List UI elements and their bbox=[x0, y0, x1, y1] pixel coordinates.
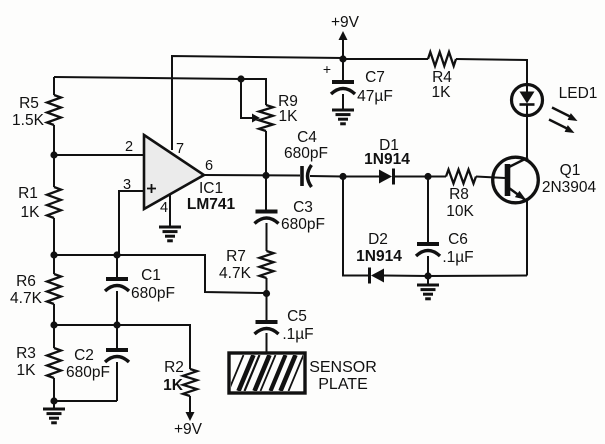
svg-text:C4: C4 bbox=[297, 129, 317, 146]
svg-text:680pF: 680pF bbox=[66, 364, 110, 381]
resistor R7 bbox=[260, 251, 274, 278]
capacitor C3 bbox=[255, 212, 279, 224]
wire pin2 input bbox=[54, 154, 144, 156]
label R1 bbox=[18, 185, 40, 221]
label Q1 bbox=[560, 162, 581, 179]
wire node C to R3 bbox=[53, 325, 55, 348]
C7 plus sign bbox=[323, 61, 331, 77]
svg-text:R5: R5 bbox=[19, 95, 39, 112]
label C1 bbox=[131, 267, 175, 302]
capacitor C1 bbox=[105, 279, 129, 291]
LED1 cathode stem bbox=[526, 105, 528, 116]
wire C1 bottom stem bbox=[116, 291, 118, 325]
label C5 bbox=[282, 308, 313, 343]
LED1 triangle bbox=[520, 92, 535, 104]
node F junction pin3/C1 bbox=[113, 251, 120, 258]
svg-text:1.5K: 1.5K bbox=[12, 112, 45, 129]
wire pin4 ground stem bbox=[169, 194, 171, 227]
label R2 bbox=[163, 359, 184, 394]
wire pin3 input bbox=[119, 191, 144, 255]
ground op-amp pin4 bbox=[159, 227, 181, 241]
svg-text:C5: C5 bbox=[287, 308, 307, 325]
op-amp plus sign pin3 bbox=[147, 184, 156, 193]
wire node K to C5 bbox=[266, 294, 268, 322]
wire node E to R9 top bbox=[241, 79, 266, 105]
label LM741 bbox=[187, 196, 236, 213]
wire output node to C3 bbox=[265, 176, 267, 211]
pin 4 label bbox=[160, 200, 168, 216]
svg-text:4.7K: 4.7K bbox=[10, 290, 43, 307]
wire pin7 supply bbox=[172, 56, 343, 150]
resistor R6 bbox=[47, 274, 61, 304]
label R9 bbox=[278, 93, 298, 125]
capacitor C2 bbox=[105, 350, 129, 362]
LED1 cathode bar bbox=[520, 103, 535, 106]
label R4 bbox=[432, 69, 453, 101]
wire R2 to +9V arrow bbox=[189, 396, 191, 412]
node E junction rail/R9 bbox=[237, 75, 244, 82]
svg-text:4: 4 bbox=[160, 200, 168, 216]
arrowhead +9V bottom bbox=[186, 412, 195, 421]
svg-text:1N914: 1N914 bbox=[364, 151, 410, 168]
sensor plate box bbox=[229, 353, 305, 393]
svg-text:R3: R3 bbox=[16, 345, 36, 362]
svg-text:.1µF: .1µF bbox=[282, 326, 313, 343]
wire R4 to LED bbox=[456, 59, 527, 84]
wire D2 to node M bbox=[384, 275, 428, 278]
wire C7 top stem bbox=[342, 59, 344, 80]
wire node J down to D2 row bbox=[343, 177, 369, 276]
wire node M to Q1 emitter bbox=[428, 275, 527, 278]
svg-text:+: + bbox=[323, 61, 331, 77]
node K junction R7/C5/feedback bbox=[263, 290, 270, 297]
svg-text:C6: C6 bbox=[448, 231, 468, 248]
label R6 bbox=[10, 273, 43, 307]
wire R8 to Q1 base bbox=[476, 177, 505, 179]
wire Q1 emitter to bottom rail bbox=[526, 201, 528, 276]
wire R1 to node B bbox=[53, 218, 55, 255]
svg-text:R7: R7 bbox=[226, 248, 246, 265]
wire R3 to ground node bbox=[53, 378, 55, 401]
wire C3 to R7 bbox=[266, 223, 268, 251]
wire node B to R6 bbox=[53, 255, 55, 274]
LED1 light arrow 1 bbox=[552, 108, 578, 122]
label +9V top bbox=[331, 14, 360, 31]
svg-text:R1: R1 bbox=[18, 185, 38, 202]
node D junction R3/C2 bottom bbox=[50, 397, 57, 404]
node B junction R1/R6/row1 bbox=[50, 251, 57, 258]
svg-text:2: 2 bbox=[125, 139, 133, 155]
resistor R5 bbox=[47, 95, 61, 125]
wire bottom row bbox=[54, 400, 117, 402]
wire row1 pin3 node to R7 bottom bbox=[54, 255, 264, 293]
node A junction R5/R1/pin2 bbox=[50, 151, 57, 158]
capacitor C6 bbox=[416, 244, 440, 256]
ground C6 node bbox=[417, 285, 439, 299]
LED1 light arrow 2 bbox=[549, 120, 575, 134]
pin 6 label bbox=[205, 158, 213, 174]
svg-text:C7: C7 bbox=[365, 69, 385, 86]
label R3 bbox=[16, 345, 36, 379]
svg-text:680pF: 680pF bbox=[131, 285, 175, 302]
label 2N3904 bbox=[542, 179, 597, 196]
svg-text:1K: 1K bbox=[17, 362, 37, 379]
svg-text:+9V: +9V bbox=[331, 14, 360, 31]
Q1 emitter arrowhead bbox=[515, 191, 526, 200]
pin 7 label bbox=[176, 141, 184, 157]
svg-text:R8: R8 bbox=[449, 186, 469, 203]
svg-text:D2: D2 bbox=[368, 231, 388, 248]
resistor R3 bbox=[47, 348, 61, 378]
arrowhead +9V top bbox=[339, 31, 348, 40]
node H junction rail/C7 bbox=[339, 55, 346, 62]
svg-text:R6: R6 bbox=[16, 273, 36, 290]
Q1 collector line bbox=[509, 158, 528, 168]
diode D1 bbox=[379, 169, 394, 185]
svg-text:LM741: LM741 bbox=[187, 196, 236, 213]
potentiometer R9 bbox=[259, 105, 273, 131]
resistor R8 bbox=[446, 170, 476, 184]
label C7 bbox=[357, 69, 393, 105]
svg-text:1K: 1K bbox=[432, 84, 452, 101]
label +9V bottom bbox=[174, 421, 203, 438]
resistor R1 bbox=[47, 187, 61, 218]
label R7 bbox=[219, 248, 252, 282]
wire node L to R8 bbox=[428, 176, 446, 178]
wire R9 wiper arm bbox=[241, 79, 252, 118]
wire C2 top stem bbox=[116, 325, 118, 349]
wire C5 to sensor plate bbox=[266, 333, 268, 353]
svg-text:1N914: 1N914 bbox=[356, 248, 402, 265]
label C4 bbox=[284, 129, 328, 162]
capacitor C5 bbox=[255, 322, 279, 334]
node J junction C4/D1/D2-loop bbox=[339, 173, 346, 180]
wire C4 to node J bbox=[310, 175, 343, 178]
Q1 emitter line bbox=[509, 188, 526, 201]
label LED1 bbox=[559, 85, 598, 102]
wire R6 to node C bbox=[53, 304, 55, 325]
Q1 base bar bbox=[505, 164, 511, 196]
wire +9V stem top bbox=[342, 39, 344, 58]
svg-text:2N3904: 2N3904 bbox=[542, 179, 597, 196]
node C junction R6/R3/row2 bbox=[50, 321, 57, 328]
wire node A to R1 bbox=[53, 155, 55, 187]
svg-text:1K: 1K bbox=[163, 377, 184, 394]
svg-text:.1µF: .1µF bbox=[442, 249, 473, 266]
label SENSOR PLATE bbox=[309, 359, 377, 393]
wire ground stem C6 bbox=[427, 276, 429, 284]
pin 3 label bbox=[123, 177, 131, 193]
resistor R4 bbox=[428, 52, 456, 66]
wire R5 to node A bbox=[53, 125, 55, 155]
node L junction D1/C6/R8 bbox=[424, 173, 431, 180]
op-amp U1 triangle bbox=[144, 135, 204, 209]
capacitor C4 bbox=[302, 165, 312, 187]
svg-text:680pF: 680pF bbox=[281, 216, 325, 233]
wire D1 to node L bbox=[394, 176, 429, 178]
svg-text:6: 6 bbox=[205, 158, 213, 174]
wire LED to Q1 collector bbox=[526, 116, 528, 158]
pin 2 label bbox=[125, 139, 133, 155]
ground C7 bbox=[332, 110, 354, 124]
LED1 anode stem bbox=[526, 84, 528, 92]
svg-text:680pF: 680pF bbox=[284, 145, 328, 162]
svg-text:1K: 1K bbox=[279, 108, 299, 125]
wire C1 top stem bbox=[116, 255, 118, 278]
ground left column bbox=[43, 409, 65, 423]
label C6 bbox=[442, 231, 473, 266]
svg-text:10K: 10K bbox=[446, 203, 474, 220]
svg-text:7: 7 bbox=[176, 141, 184, 157]
wire node L to C6 bbox=[427, 177, 429, 244]
svg-text:Q1: Q1 bbox=[560, 162, 581, 179]
label D2 bbox=[356, 231, 402, 265]
diode D2 bbox=[370, 268, 385, 284]
node M junction D2/C6/ground bbox=[424, 272, 431, 279]
wire top-left rail bbox=[54, 77, 241, 79]
node G junction row2/C2 bbox=[113, 321, 120, 328]
wire C6 to node M bbox=[427, 256, 429, 276]
svg-text:47µF: 47µF bbox=[357, 88, 393, 105]
sensor plate hatching bbox=[229, 355, 304, 391]
wire op-amp output bbox=[204, 174, 300, 177]
resistor R2 bbox=[183, 369, 197, 396]
transistor Q1 circle bbox=[493, 157, 539, 203]
svg-text:C1: C1 bbox=[141, 267, 161, 284]
label C2 bbox=[66, 347, 110, 381]
svg-text:SENSOR: SENSOR bbox=[309, 359, 377, 376]
label C3 bbox=[281, 199, 325, 233]
wire left column top segment bbox=[53, 77, 55, 95]
svg-text:4.7K: 4.7K bbox=[219, 265, 252, 282]
wire R7 to node K bbox=[266, 278, 268, 294]
wire ground stem left bbox=[53, 401, 55, 409]
wire rail to R4 bbox=[343, 58, 428, 60]
R9 wiper arrowhead bbox=[252, 114, 260, 123]
node I junction output/R9/C3 bbox=[262, 172, 269, 179]
svg-text:IC1: IC1 bbox=[199, 180, 223, 197]
svg-text:R2: R2 bbox=[164, 359, 184, 376]
wire R9 bottom to output node bbox=[265, 131, 267, 175]
label D1 bbox=[364, 137, 410, 168]
svg-text:PLATE: PLATE bbox=[318, 376, 368, 393]
wire row2 bbox=[54, 325, 190, 369]
svg-text:+9V: +9V bbox=[174, 421, 203, 438]
LED1 circle bbox=[512, 85, 543, 116]
capacitor C7 bbox=[331, 82, 355, 94]
label R8 bbox=[446, 186, 474, 220]
svg-text:1K: 1K bbox=[21, 204, 41, 221]
label R5 bbox=[12, 95, 45, 129]
svg-text:LED1: LED1 bbox=[559, 85, 598, 102]
svg-text:C2: C2 bbox=[74, 347, 94, 364]
wire C2 bottom stem bbox=[116, 362, 118, 401]
label IC1 bbox=[199, 180, 223, 197]
svg-text:C3: C3 bbox=[293, 199, 313, 216]
wire C7 bottom stem bbox=[342, 94, 344, 109]
wire node J to D1 bbox=[343, 176, 379, 178]
